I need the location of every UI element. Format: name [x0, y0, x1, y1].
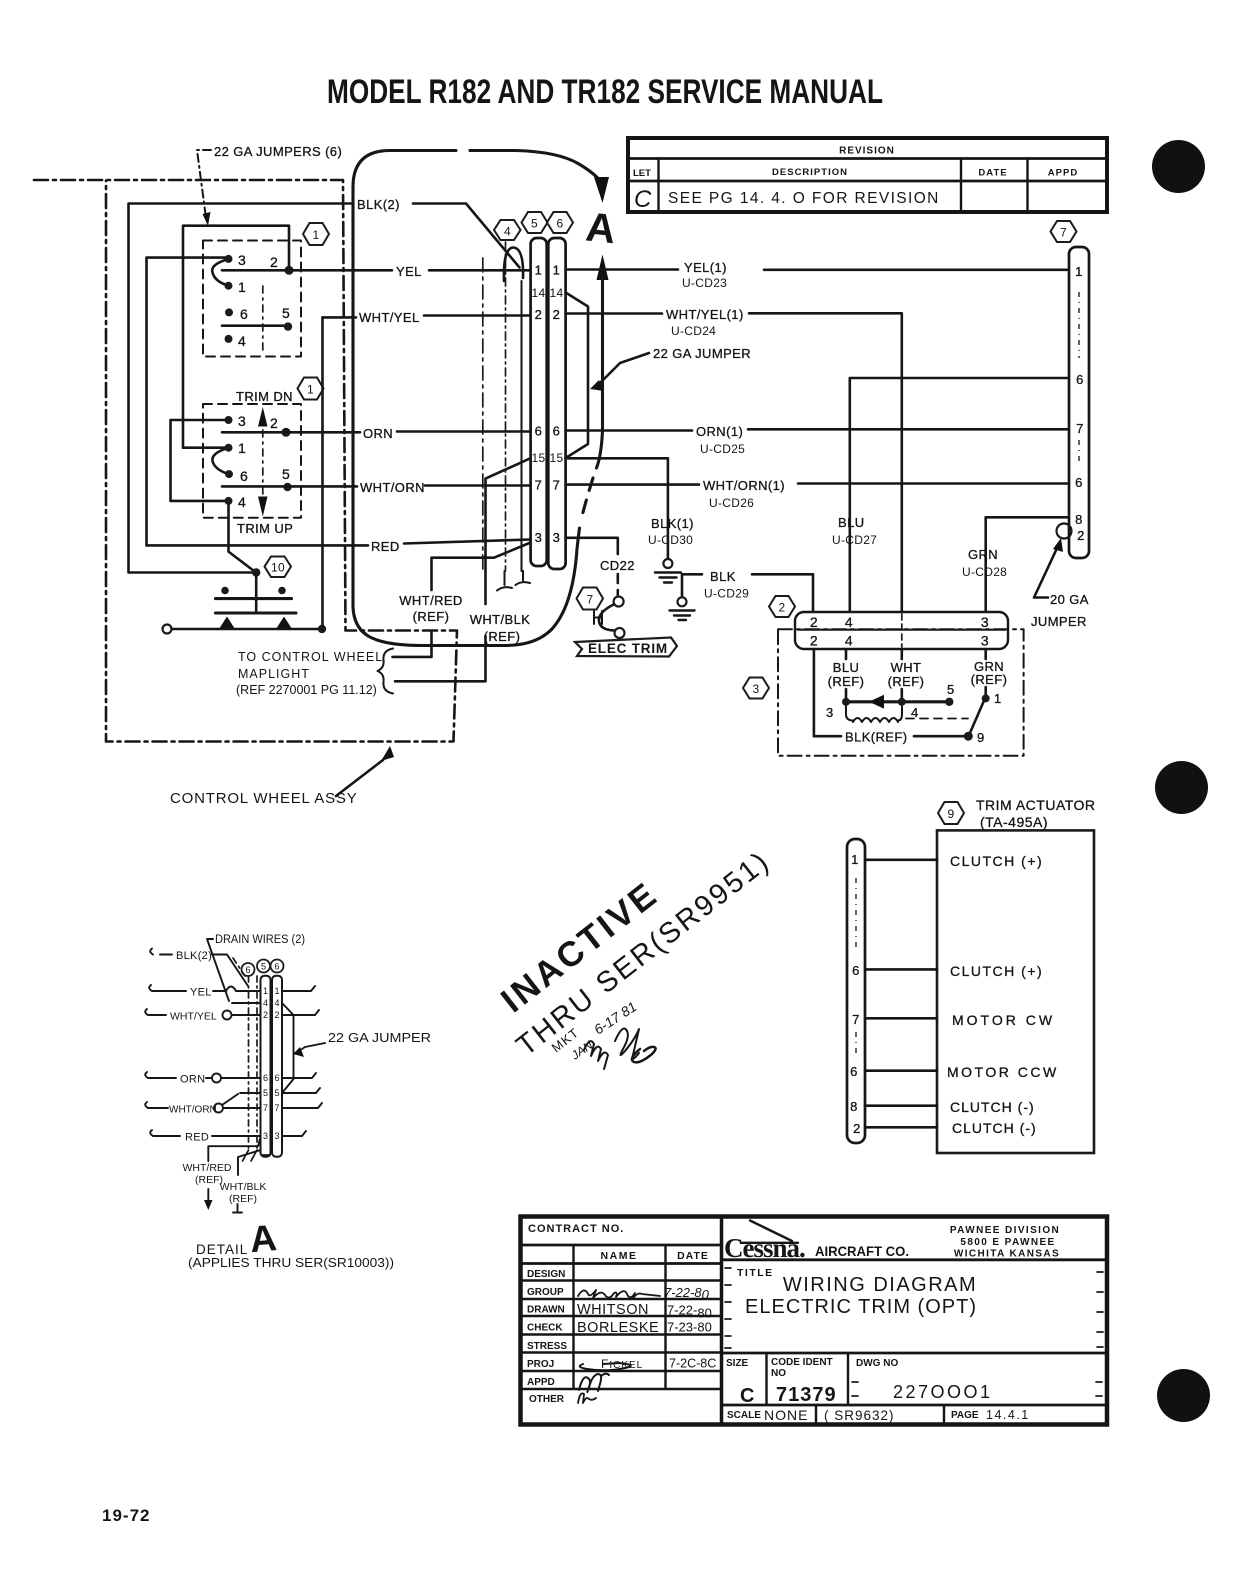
svg-text:PROJ: PROJ	[527, 1359, 554, 1370]
svg-text:STRESS: STRESS	[527, 1341, 567, 1352]
svg-text:3: 3	[238, 413, 246, 429]
wire WHT(REF)	[900, 649, 903, 702]
svg-text:RED: RED	[371, 539, 400, 554]
wire GRN	[986, 517, 1069, 612]
svg-text:2: 2	[1077, 528, 1085, 543]
label 22 GA JUMPER + leader	[590, 346, 751, 391]
svg-text:5: 5	[947, 682, 955, 697]
control wheel assy boundary (dash-dot)	[34, 180, 457, 742]
svg-text:3: 3	[553, 530, 561, 545]
svg-text:1: 1	[313, 228, 320, 242]
INACTIVE stamp	[494, 845, 777, 1069]
svg-text:1: 1	[553, 263, 561, 278]
bar pin numbers	[532, 263, 564, 546]
actuator wire pin2	[865, 1126, 937, 1129]
svg-text:2: 2	[779, 601, 786, 615]
svg-text:3: 3	[263, 1131, 268, 1141]
svg-text:ELECTRIC TRIM (OPT): ELECTRIC TRIM (OPT)	[745, 1296, 977, 1318]
svg-text:DWG NO: DWG NO	[856, 1358, 898, 1369]
svg-text:5: 5	[263, 1088, 268, 1098]
connector bar 6	[548, 238, 565, 569]
svg-text:6: 6	[553, 424, 561, 439]
contact arc pin3-pin1	[212, 259, 228, 286]
svg-text:WHT/YEL: WHT/YEL	[359, 310, 420, 325]
svg-text:U-CD29: U-CD29	[704, 587, 749, 601]
wire BLK(1) from pin15 to ground	[566, 458, 668, 558]
svg-text:14.4.1: 14.4.1	[986, 1408, 1030, 1422]
label to control wheel maplight	[236, 650, 383, 697]
label 20 GA JUMPER + leader	[1031, 538, 1089, 629]
bundle continuation up arrow	[597, 255, 609, 281]
svg-text:7: 7	[587, 593, 594, 607]
title block	[521, 1217, 1108, 1425]
ELEC TRIM banner	[575, 638, 677, 657]
svg-text:PAWNEE DIVISION: PAWNEE DIVISION	[950, 1225, 1060, 1236]
svg-text:U-CD25: U-CD25	[700, 442, 745, 456]
svg-text:5: 5	[531, 217, 538, 231]
svg-text:ELEC TRIM: ELEC TRIM	[588, 641, 668, 656]
bundle arrowhead down (to flag A)	[594, 177, 609, 203]
elec trim switch	[594, 597, 625, 639]
wire RED feed to box1 pin3	[147, 258, 229, 546]
mini wire RED	[150, 1130, 260, 1136]
svg-text:3: 3	[981, 614, 989, 630]
svg-text:5: 5	[282, 305, 290, 321]
svg-text:DATE: DATE	[978, 168, 1007, 179]
wire YEL(1)	[566, 268, 1069, 271]
cable bundle outline left/top (solid)	[353, 151, 599, 608]
svg-text:3: 3	[981, 633, 989, 649]
mini shield dash lines	[249, 976, 258, 1150]
bundle right edge dashed portion	[581, 478, 594, 522]
svg-text:227OOO1: 227OOO1	[893, 1382, 993, 1402]
svg-text:WIRING DIAGRAM: WIRING DIAGRAM	[783, 1274, 977, 1296]
svg-text:5: 5	[282, 466, 290, 482]
svg-text:DESCRIPTION: DESCRIPTION	[772, 167, 848, 178]
svg-text:BLK: BLK	[710, 569, 736, 584]
brace to maplight	[378, 649, 394, 694]
svg-text:CHECK: CHECK	[527, 1323, 563, 1334]
svg-text:( SR9632): ( SR9632)	[824, 1408, 895, 1423]
wire WHT/YEL	[323, 316, 531, 318]
cessna cell	[722, 1258, 1108, 1261]
svg-text:WHITSON: WHITSON	[577, 1302, 649, 1318]
svg-text:DATE: DATE	[677, 1250, 709, 1262]
svg-text:71379: 71379	[776, 1384, 837, 1406]
small tick marks in title cell	[725, 1268, 1103, 1396]
wire ORN(1)	[566, 428, 1069, 431]
svg-text:BLU: BLU	[838, 515, 865, 530]
svg-text:GROUP: GROUP	[527, 1287, 564, 1298]
svg-text:(REF): (REF)	[971, 672, 1008, 687]
svg-text:7: 7	[1076, 421, 1084, 436]
wire BLK with ground	[682, 574, 813, 612]
shield dash line (hex 4)	[482, 258, 484, 570]
wire WHT/ORN(1)	[566, 484, 1069, 485]
svg-text:4: 4	[238, 333, 246, 349]
actuator wire pin6	[865, 968, 937, 971]
svg-text:CD22: CD22	[600, 558, 635, 573]
svg-text:CONTRACT NO.: CONTRACT NO.	[528, 1223, 624, 1235]
svg-text:OTHER: OTHER	[529, 1394, 565, 1405]
svg-text:4: 4	[263, 998, 268, 1008]
svg-text:7-2C-8C: 7-2C-8C	[669, 1357, 716, 1371]
svg-text:ORN(1): ORN(1)	[696, 424, 743, 439]
shield dash line under hex4	[505, 242, 507, 571]
coil element between 3 and 4	[846, 702, 902, 721]
svg-text:CODE IDENT: CODE IDENT	[771, 1357, 833, 1368]
bridge 6-5	[222, 324, 288, 327]
svg-text:19-72: 19-72	[102, 1506, 150, 1525]
svg-text:6: 6	[1075, 475, 1083, 490]
svg-text:NONE: NONE	[764, 1407, 808, 1423]
wire BLK(2) to shield bail	[413, 204, 520, 268]
svg-text:(TA-495A): (TA-495A)	[980, 814, 1048, 830]
actuator wire pin8	[865, 1104, 937, 1107]
svg-text:1: 1	[263, 986, 268, 996]
svg-text:(REF): (REF)	[828, 674, 865, 689]
svg-text:AIRCRAFT CO.: AIRCRAFT CO.	[815, 1243, 909, 1259]
ground symbol 1	[655, 559, 681, 583]
wire CD22 from pin 3	[566, 538, 618, 554]
svg-text:(REF): (REF)	[888, 674, 925, 689]
svg-text:1: 1	[994, 691, 1002, 706]
svg-text:6: 6	[1076, 372, 1084, 387]
20 GA jumper loop	[1057, 524, 1072, 539]
mini wire WHT/ORN	[145, 1102, 260, 1108]
svg-text:BLK(1): BLK(1)	[651, 516, 694, 531]
harness contents	[814, 649, 1007, 745]
svg-text:4: 4	[274, 998, 279, 1008]
svg-text:15: 15	[532, 451, 546, 465]
left column rows	[521, 1244, 722, 1247]
svg-text:WHT/YEL(1): WHT/YEL(1)	[666, 307, 744, 322]
svg-text:U-CD30: U-CD30	[648, 533, 693, 547]
svg-text:RED: RED	[185, 1132, 209, 1144]
actuator wire pin1	[865, 858, 937, 861]
right connector bar	[1069, 247, 1089, 558]
wire WHT/YEL riser from rocker	[321, 317, 324, 629]
svg-text:MOTOR CCW: MOTOR CCW	[947, 1064, 1059, 1080]
svg-text:Cessna.: Cessna.	[724, 1233, 805, 1263]
svg-text:NAME: NAME	[601, 1250, 638, 1262]
svg-text:U-CD27: U-CD27	[832, 533, 877, 547]
svg-text:MOTOR CW: MOTOR CW	[952, 1012, 1055, 1028]
svg-text:DRAWN: DRAWN	[527, 1305, 565, 1316]
wire WHT/ORN	[222, 484, 531, 487]
wire BLU(REF)	[845, 649, 848, 702]
svg-text:1: 1	[238, 279, 246, 295]
svg-text:7: 7	[263, 1103, 268, 1113]
actuator wire pin6b	[865, 1069, 937, 1072]
svg-text:2: 2	[810, 614, 818, 630]
flag hexagon 4	[494, 220, 521, 240]
svg-text:1: 1	[238, 440, 246, 456]
svg-text:3: 3	[535, 530, 543, 545]
svg-text:CLUTCH (+): CLUTCH (+)	[950, 853, 1043, 869]
svg-text:7: 7	[1060, 226, 1067, 240]
svg-text:6: 6	[850, 1064, 858, 1079]
mini wire BLK(2)	[150, 949, 248, 987]
svg-text:WHT/RED: WHT/RED	[183, 1162, 232, 1174]
svg-text:WHT/YEL: WHT/YEL	[170, 1011, 217, 1023]
svg-text:15: 15	[550, 451, 564, 465]
svg-text:TRIM DN: TRIM DN	[236, 389, 293, 404]
svg-text:6: 6	[557, 217, 564, 231]
harness dashed box (flag 3)	[778, 629, 1024, 755]
svg-text:(REF): (REF)	[229, 1193, 257, 1205]
svg-text:6: 6	[274, 1073, 279, 1083]
wire YEL	[222, 269, 531, 272]
svg-text:BLU: BLU	[833, 660, 860, 675]
svg-text:YEL: YEL	[190, 987, 212, 999]
svg-text:6: 6	[274, 962, 279, 972]
svg-text:A: A	[584, 203, 618, 252]
wire WHT/YEL(1)	[566, 313, 902, 612]
rocker switch (hex 10)	[163, 568, 327, 633]
svg-text:7-22-80: 7-22-80	[664, 1285, 710, 1302]
svg-text:5800 E PAWNEE: 5800 E PAWNEE	[960, 1237, 1055, 1248]
svg-text:WHT/BLK: WHT/BLK	[470, 612, 531, 627]
trim actuator box	[937, 830, 1094, 1153]
svg-text:WHT/ORN(1): WHT/ORN(1)	[703, 478, 785, 493]
contact arc pin1-pin6	[212, 448, 228, 474]
svg-text:8: 8	[1075, 512, 1083, 527]
svg-text:WHT/ORN: WHT/ORN	[360, 480, 425, 495]
svg-text:DRAIN WIRES (2): DRAIN WIRES (2)	[215, 934, 305, 946]
svg-text:GRN: GRN	[968, 547, 998, 562]
mini WHT/BLK (REF)	[238, 1150, 261, 1175]
svg-text:(APPLIES THRU SER(SR10003)): (APPLIES THRU SER(SR10003))	[188, 1255, 394, 1270]
actuator connector bar	[847, 839, 865, 1143]
svg-text:3: 3	[753, 682, 760, 696]
svg-text:BLK(2): BLK(2)	[357, 197, 400, 212]
mini jumper	[282, 1003, 294, 1093]
svg-text:U-CD23: U-CD23	[682, 276, 727, 290]
svg-text:APPD: APPD	[1048, 168, 1078, 179]
svg-text:CONTROL WHEEL ASSY: CONTROL WHEEL ASSY	[170, 790, 358, 807]
svg-text:1: 1	[307, 383, 314, 397]
svg-text:3: 3	[274, 1131, 279, 1141]
flag hexagon 2	[769, 596, 795, 617]
svg-text:14: 14	[550, 286, 564, 300]
svg-text:MODEL R182 AND TR182 SERVICE M: MODEL R182 AND TR182 SERVICE MANUAL	[327, 73, 883, 111]
maplight wire WHT/BLK (REF)	[395, 458, 531, 681]
svg-text:6: 6	[240, 468, 248, 484]
svg-text:TO CONTROL WHEEL: TO CONTROL WHEEL	[238, 650, 383, 664]
flag hexagon 3	[743, 678, 769, 699]
svg-text:2: 2	[270, 254, 278, 270]
svg-text:7: 7	[852, 1012, 860, 1027]
svg-text:CLUTCH (+): CLUTCH (+)	[950, 963, 1043, 979]
flag hexagon 7 (top right bar)	[1051, 221, 1077, 242]
svg-text:BORLESKE: BORLESKE	[577, 1320, 659, 1336]
svg-text:4: 4	[845, 614, 853, 630]
svg-text:A: A	[248, 1217, 278, 1260]
svg-text:DESIGN: DESIGN	[527, 1269, 565, 1280]
svg-text:9: 9	[977, 730, 985, 745]
actuator terminal labels	[947, 853, 1059, 1136]
mini right stubs	[282, 986, 322, 1136]
mini WHT/RED (REF)	[208, 1137, 260, 1161]
svg-text:WICHITA KANSAS: WICHITA KANSAS	[954, 1249, 1060, 1260]
flag hexagon 1 (box2)	[298, 378, 324, 400]
svg-text:3: 3	[826, 705, 834, 720]
svg-text:6: 6	[240, 306, 248, 322]
svg-text:1: 1	[274, 986, 279, 996]
mini row 14	[232, 1002, 261, 1004]
svg-text:SIZE: SIZE	[726, 1358, 749, 1369]
svg-text:22 GA JUMPER: 22 GA JUMPER	[653, 346, 751, 361]
svg-text:CLUTCH (-): CLUTCH (-)	[952, 1120, 1037, 1136]
svg-text:6: 6	[263, 1073, 268, 1083]
svg-text:BLK(2): BLK(2)	[176, 950, 212, 962]
svg-text:REVISION: REVISION	[839, 146, 895, 157]
svg-text:4: 4	[504, 225, 511, 239]
svg-text:NO: NO	[771, 1368, 786, 1379]
shield bail arc	[504, 248, 523, 282]
svg-text:ORN: ORN	[363, 426, 393, 441]
flag hexagon 9	[938, 802, 964, 824]
svg-text:CLUTCH (-): CLUTCH (-)	[950, 1099, 1035, 1115]
svg-text:5: 5	[274, 1088, 279, 1098]
svg-text:PAGE: PAGE	[951, 1410, 979, 1421]
svg-text:1: 1	[1075, 264, 1083, 279]
svg-text:4: 4	[238, 494, 246, 510]
svg-text:8: 8	[850, 1099, 858, 1114]
ground symbol 2	[670, 597, 695, 620]
svg-text:U-CD26: U-CD26	[709, 496, 754, 510]
mini row 15	[222, 1093, 261, 1105]
shield wire BLK(2) from rocker junction up left side	[129, 204, 354, 573]
wire ORN	[222, 430, 531, 433]
svg-text:APPD: APPD	[527, 1377, 555, 1388]
mini connector bars	[261, 976, 271, 1157]
jumper pin14 to pin15	[566, 293, 588, 459]
maplight wire WHT/RED (REF)	[393, 543, 531, 657]
wire BLK(REF)	[814, 649, 965, 736]
svg-text:(REF 2270001 PG 11.12): (REF 2270001 PG 11.12)	[236, 683, 377, 697]
svg-text:U-CD28: U-CD28	[962, 565, 1007, 579]
svg-text:2: 2	[263, 1010, 268, 1020]
flag hexagon 1 (box1)	[303, 223, 329, 245]
svg-text:14: 14	[532, 286, 546, 300]
switch box 2 TRIM DN/UP (dashed)	[203, 389, 301, 536]
svg-text:LET: LET	[633, 168, 651, 179]
svg-text:6: 6	[245, 965, 250, 975]
shield drain solid line	[521, 281, 523, 571]
svg-text:2: 2	[853, 1121, 861, 1136]
svg-text:6: 6	[852, 963, 860, 978]
svg-text:YEL: YEL	[396, 264, 422, 279]
svg-text:WHT: WHT	[891, 660, 922, 675]
svg-text:WHT/ORN: WHT/ORN	[169, 1105, 217, 1116]
svg-text:(REF): (REF)	[484, 629, 521, 644]
mini pin numbers	[263, 986, 280, 1141]
switch blade GRN side	[982, 694, 990, 702]
punch hole middle right	[1155, 761, 1208, 814]
connector 2 (double row)	[795, 612, 1008, 649]
svg-text:22 GA JUMPERS (6): 22 GA JUMPERS (6)	[214, 144, 342, 159]
connector bar 5	[531, 238, 547, 566]
wire box2 pin4 to rocker junction	[229, 501, 257, 573]
wire BLU	[850, 378, 1069, 612]
svg-text:TITLE: TITLE	[737, 1267, 774, 1279]
svg-text:WHT/RED: WHT/RED	[399, 593, 462, 608]
svg-text:7: 7	[535, 478, 543, 493]
flag hexagon 5	[522, 212, 548, 233]
svg-text:MAPLIGHT: MAPLIGHT	[238, 667, 310, 681]
revision table	[628, 138, 1107, 213]
svg-text:22 GA JUMPER: 22 GA JUMPER	[328, 1030, 431, 1045]
mini wire WHT/YEL	[145, 1009, 260, 1015]
wire YEL junction to box1 pin2 and box2 pin1	[183, 226, 289, 448]
svg-text:TRIM ACTUATOR: TRIM ACTUATOR	[976, 797, 1096, 813]
circled pins	[242, 963, 255, 976]
punch hole top right	[1152, 140, 1205, 193]
svg-text:2: 2	[553, 307, 561, 322]
svg-text:7: 7	[553, 478, 561, 493]
shield pigtail ticks	[497, 571, 530, 591]
label CONTROL WHEEL ASSY + leader	[170, 746, 394, 807]
svg-text:20 GA: 20 GA	[1050, 592, 1089, 607]
svg-text:SEE PG 14. 4. O FOR REVISION: SEE PG 14. 4. O FOR REVISION	[668, 190, 940, 207]
svg-text:BLK(REF): BLK(REF)	[845, 730, 907, 745]
svg-text:U-CD24: U-CD24	[671, 324, 716, 338]
wire GRN(REF)	[984, 649, 987, 696]
svg-text:7: 7	[274, 1103, 279, 1113]
svg-text:2: 2	[270, 415, 278, 431]
svg-text:JUMPER: JUMPER	[1031, 614, 1087, 629]
flag hexagon 10	[265, 557, 292, 578]
svg-text:YEL(1): YEL(1)	[684, 260, 727, 275]
svg-text:3: 3	[238, 252, 246, 268]
svg-text:SCALE: SCALE	[727, 1410, 761, 1421]
mini wire YEL	[149, 985, 260, 991]
mini wire ORN	[145, 1072, 260, 1078]
svg-text:4: 4	[845, 633, 853, 649]
svg-text:10: 10	[271, 561, 285, 575]
svg-text:ORN: ORN	[180, 1074, 205, 1086]
svg-text:2: 2	[274, 1010, 279, 1020]
actuator wire pin7	[865, 1017, 937, 1020]
svg-text:(REF): (REF)	[413, 609, 450, 624]
svg-text:7-23-80: 7-23-80	[667, 1320, 712, 1335]
svg-text:C: C	[634, 186, 652, 213]
svg-text:6: 6	[535, 424, 543, 439]
svg-text:5: 5	[261, 962, 266, 972]
svg-text:1: 1	[851, 852, 859, 867]
punch hole bottom right	[1157, 1369, 1210, 1422]
svg-text:9: 9	[948, 807, 955, 821]
switch common bar	[846, 700, 949, 703]
svg-text:2: 2	[810, 633, 818, 649]
switch box 1 (dashed)	[203, 241, 301, 357]
svg-text:1: 1	[535, 263, 543, 278]
svg-text:TRIM UP: TRIM UP	[237, 521, 293, 536]
wire link box2 pin3 to pin4	[171, 420, 229, 501]
label 22 GA JUMPERS (6) + leader	[197, 144, 342, 226]
svg-text:WHT/BLK: WHT/BLK	[220, 1181, 267, 1193]
wire RED	[147, 540, 531, 546]
bundle bottom outline (solid)	[353, 528, 580, 646]
flag hexagon 6	[547, 212, 573, 233]
flag hexagon 7 (elec trim)	[577, 588, 604, 610]
svg-text:FICKEL: FICKEL	[601, 1357, 643, 1371]
svg-text:2: 2	[535, 307, 543, 322]
